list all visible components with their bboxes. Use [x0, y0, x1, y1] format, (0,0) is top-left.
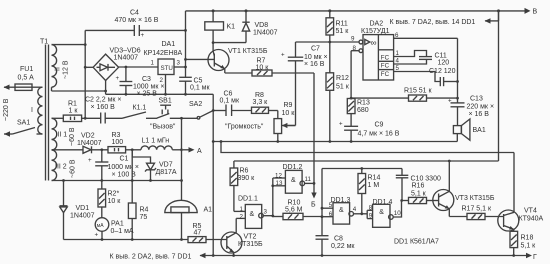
svg-text:10 к: 10 к	[256, 64, 270, 71]
svg-text:FU1: FU1	[20, 66, 33, 73]
svg-text:STU: STU	[161, 65, 173, 72]
svg-text:&: &	[250, 211, 255, 218]
svg-text:13: 13	[276, 180, 283, 187]
svg-text:~60 В: ~60 В	[69, 127, 76, 146]
svg-text:5,1 к: 5,1 к	[521, 242, 537, 249]
svg-text:КР142ЕН8А: КР142ЕН8А	[144, 50, 183, 57]
svg-text:220 мк ×: 220 мк ×	[467, 103, 495, 110]
svg-text:3: 3	[264, 209, 268, 216]
svg-text:+: +	[88, 157, 92, 164]
svg-text:C13: C13	[470, 96, 483, 103]
svg-text:51 к: 51 к	[336, 83, 350, 90]
svg-text:R3: R3	[112, 132, 121, 139]
svg-text:К выв. 7 DA2, выв. 14 DD1: К выв. 7 DA2, выв. 14 DD1	[390, 19, 476, 26]
svg-text:C9: C9	[375, 121, 384, 128]
svg-text:КТ940А: КТ940А	[519, 215, 544, 222]
svg-text:C11: C11	[435, 53, 447, 60]
svg-text:47: 47	[194, 229, 202, 236]
svg-text:DD1.1: DD1.1	[238, 196, 258, 203]
svg-text:A1: A1	[204, 207, 213, 214]
svg-text:12: 12	[275, 172, 282, 179]
svg-text:I: I	[31, 107, 33, 114]
svg-text:R12: R12	[336, 75, 349, 82]
svg-text:× 16 В: × 16 В	[304, 61, 325, 68]
svg-text:FC: FC	[381, 63, 390, 70]
svg-text:5: 5	[329, 202, 333, 209]
svg-text:&: &	[379, 209, 384, 216]
svg-text:VT1 КТ315Б: VT1 КТ315Б	[228, 48, 268, 55]
svg-text:VT2: VT2	[244, 234, 257, 241]
svg-text:0,1 мк: 0,1 мк	[190, 84, 210, 91]
svg-text:R8: R8	[255, 92, 264, 99]
svg-text:3,3 к: 3,3 к	[253, 99, 269, 106]
svg-text:R15 51 к: R15 51 к	[404, 88, 433, 95]
svg-text:1 к: 1 к	[69, 107, 79, 114]
svg-text:10 к: 10 к	[108, 198, 122, 205]
svg-text:К выв. 2 DA2, выв. 7 DD1: К выв. 2 DA2, выв. 7 DD1	[110, 253, 192, 260]
svg-text:1000 мк ×: 1000 мк ×	[108, 164, 139, 171]
svg-text:+: +	[339, 121, 343, 128]
svg-text:75: 75	[140, 214, 148, 221]
svg-text:1 М: 1 М	[368, 182, 380, 189]
svg-text:470 мк × 16 В: 470 мк × 16 В	[115, 17, 159, 24]
svg-text:VD7: VD7	[159, 162, 173, 169]
svg-text:DD1.3: DD1.3	[331, 197, 351, 204]
svg-text:В: В	[533, 9, 538, 16]
svg-text:C5: C5	[194, 77, 203, 84]
svg-text:1N4007: 1N4007	[77, 140, 102, 147]
svg-text:~12 В: ~12 В	[63, 60, 70, 79]
svg-text:C8: C8	[334, 235, 343, 242]
svg-text:4: 4	[353, 206, 357, 213]
svg-text:C1: C1	[120, 156, 129, 163]
svg-text:51 к: 51 к	[336, 28, 350, 35]
svg-text:R13: R13	[357, 100, 370, 107]
svg-text:К157УД1: К157УД1	[361, 28, 390, 35]
svg-text:C12 120: C12 120	[429, 68, 456, 75]
svg-text:1N4007: 1N4007	[253, 30, 278, 37]
svg-text:BA1: BA1	[473, 127, 486, 134]
svg-text:× 25 В: × 25 В	[137, 90, 158, 97]
svg-text:C2 2,2 мк ×: C2 2,2 мк ×	[85, 97, 121, 104]
svg-text:R10: R10	[288, 200, 301, 207]
svg-text:+: +	[141, 32, 145, 39]
svg-text:3: 3	[177, 60, 181, 67]
svg-text:~220 В: ~220 В	[3, 98, 10, 121]
svg-text:4,7 мк × 16 В: 4,7 мк × 16 В	[358, 130, 400, 137]
svg-text:L1 1 мГн: L1 1 мГн	[142, 138, 170, 145]
svg-text:2: 2	[160, 77, 164, 84]
svg-text:120: 120	[438, 60, 450, 67]
svg-text:PA1: PA1	[111, 221, 124, 228]
svg-text:100: 100	[112, 139, 124, 146]
svg-text:C3: C3	[142, 76, 151, 83]
svg-text:DD1.4: DD1.4	[373, 199, 393, 206]
svg-text:R14: R14	[368, 175, 381, 182]
svg-text:680: 680	[357, 107, 369, 114]
svg-text:VD8: VD8	[255, 22, 269, 29]
svg-text:10: 10	[394, 210, 401, 217]
svg-text:Г: Г	[533, 254, 537, 261]
svg-text:FC: FC	[381, 71, 390, 78]
svg-text:R4: R4	[140, 207, 149, 214]
svg-text:"Вызов": "Вызов"	[150, 124, 176, 131]
svg-text:FC: FC	[381, 55, 390, 62]
svg-text:III 1: III 1	[56, 132, 68, 139]
svg-text:1: 1	[151, 60, 155, 67]
svg-text:11: 11	[305, 176, 312, 183]
svg-text:VT4: VT4	[524, 208, 537, 215]
svg-text:C7: C7	[311, 46, 320, 53]
svg-text:SA2: SA2	[189, 101, 202, 108]
svg-text:R11: R11	[336, 21, 348, 28]
svg-text:мА: мА	[97, 223, 104, 229]
svg-text:DA1: DA1	[162, 41, 176, 48]
svg-text:× 160 В: × 160 В	[91, 104, 116, 111]
svg-text:C6: C6	[224, 91, 233, 98]
svg-text:КТ315Б: КТ315Б	[238, 241, 263, 248]
svg-text:5,1 к: 5,1 к	[411, 191, 427, 198]
svg-text:2: 2	[240, 213, 244, 220]
svg-text:DD1.2: DD1.2	[283, 164, 303, 171]
svg-text:II: II	[55, 67, 62, 71]
svg-text:1N4007: 1N4007	[70, 213, 95, 220]
svg-text:"Громкость": "Громкость"	[225, 124, 264, 131]
svg-text:R2*: R2*	[108, 191, 120, 198]
svg-text:T1: T1	[40, 39, 48, 46]
svg-text:VT3 КТ315Б: VT3 КТ315Б	[455, 195, 495, 202]
svg-text:&: &	[291, 177, 296, 184]
svg-text:III 2: III 2	[55, 164, 67, 171]
svg-text:0,22 мк: 0,22 мк	[331, 243, 355, 250]
svg-text:+: +	[95, 232, 99, 239]
svg-text:Б: Б	[311, 202, 316, 209]
svg-text:SA1: SA1	[17, 120, 30, 127]
svg-text:Д817А: Д817А	[156, 169, 177, 176]
svg-text:&: &	[339, 207, 344, 214]
svg-text:DA2: DA2	[370, 21, 384, 28]
svg-text:+: +	[281, 52, 285, 59]
svg-text:R6: R6	[240, 168, 249, 175]
svg-text:K1: K1	[227, 24, 236, 31]
svg-text:~60 В: ~60 В	[70, 159, 77, 178]
svg-text:10 к: 10 к	[282, 110, 296, 117]
svg-text:0,5 А: 0,5 А	[18, 75, 35, 82]
svg-text:C10 3300: C10 3300	[411, 175, 441, 182]
svg-text:0–1 мА: 0–1 мА	[111, 228, 134, 235]
svg-text:К1.1: К1.1	[133, 105, 147, 112]
svg-text:390 к: 390 к	[238, 175, 256, 182]
svg-text:9: 9	[351, 36, 355, 43]
svg-text:∞: ∞	[371, 37, 377, 47]
svg-text:R17 5,1 к: R17 5,1 к	[462, 205, 492, 212]
svg-text:VD2: VD2	[81, 133, 95, 140]
svg-text:R16: R16	[412, 183, 425, 190]
svg-text:× 16 В: × 16 В	[469, 111, 490, 118]
svg-text:1N4007: 1N4007	[114, 55, 139, 62]
svg-text:0,1 мк: 0,1 мк	[220, 98, 240, 105]
svg-text:6: 6	[329, 211, 333, 218]
svg-text:C4: C4	[130, 10, 139, 17]
svg-text:А: А	[197, 148, 202, 155]
svg-text:R9: R9	[284, 102, 293, 109]
svg-text:5,6 М: 5,6 М	[285, 207, 303, 214]
svg-text:SB1: SB1	[159, 98, 172, 105]
svg-text:1: 1	[240, 206, 244, 213]
svg-text:VD1: VD1	[76, 205, 90, 212]
svg-text:VD3–VD6: VD3–VD6	[110, 48, 141, 55]
svg-text:10 мк ×: 10 мк ×	[304, 54, 328, 61]
svg-text:+: +	[116, 75, 120, 82]
svg-text:R18: R18	[521, 235, 534, 242]
svg-text:DD1 К561ЛА7: DD1 К561ЛА7	[394, 239, 439, 246]
